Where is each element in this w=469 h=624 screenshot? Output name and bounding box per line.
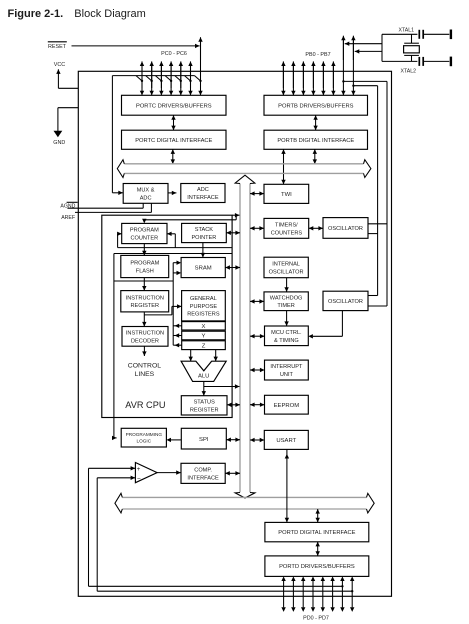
svg-text:INTERFACE: INTERFACE — [187, 475, 219, 481]
svg-text:PB0 - PB7: PB0 - PB7 — [305, 52, 330, 58]
svg-text:PURPOSE: PURPOSE — [190, 304, 218, 310]
svg-text:TWI: TWI — [281, 192, 292, 198]
svg-text:& TIMING: & TIMING — [274, 338, 299, 344]
svg-text:PORTC DRIVERS/BUFFERS: PORTC DRIVERS/BUFFERS — [136, 103, 212, 109]
svg-text:ADC: ADC — [140, 195, 152, 201]
svg-text:Z: Z — [202, 343, 206, 349]
svg-text:OSCILLATOR: OSCILLATOR — [269, 269, 304, 275]
svg-text:OSCILLATOR: OSCILLATOR — [328, 226, 363, 232]
svg-text:REGISTER: REGISTER — [190, 407, 219, 413]
svg-text:PROGRAMMING: PROGRAMMING — [126, 432, 163, 437]
svg-text:+: + — [137, 466, 141, 473]
svg-text:Block Diagram: Block Diagram — [74, 8, 146, 20]
svg-text:PROGRAM: PROGRAM — [130, 228, 159, 234]
svg-text:PORTD DRIVERS/BUFFERS: PORTD DRIVERS/BUFFERS — [279, 564, 355, 570]
svg-text:CONTROL: CONTROL — [128, 362, 161, 369]
svg-text:PD0 - PD7: PD0 - PD7 — [303, 615, 329, 621]
svg-text:UNIT: UNIT — [280, 372, 294, 378]
svg-text:SPI: SPI — [199, 437, 209, 443]
svg-text:INTERNAL: INTERNAL — [272, 262, 300, 268]
svg-text:REGISTERS: REGISTERS — [187, 312, 220, 318]
svg-text:EEPROM: EEPROM — [274, 403, 300, 409]
svg-text:VCC: VCC — [54, 62, 65, 68]
svg-text:LINES: LINES — [135, 371, 155, 378]
svg-text:INSTRUCTION: INSTRUCTION — [126, 330, 164, 336]
svg-text:MUX &: MUX & — [137, 187, 155, 193]
svg-text:COUNTERS: COUNTERS — [271, 230, 303, 236]
svg-text:COUNTER: COUNTER — [130, 236, 158, 242]
svg-text:COMP.: COMP. — [194, 467, 212, 473]
svg-text:INTERFACE: INTERFACE — [187, 195, 219, 201]
svg-text:PORTD DIGITAL INTERFACE: PORTD DIGITAL INTERFACE — [278, 530, 355, 536]
svg-text:STATUS: STATUS — [194, 399, 216, 405]
svg-text:WATCHDOG: WATCHDOG — [270, 295, 303, 301]
svg-text:USART: USART — [276, 438, 296, 444]
svg-text:LOGIC: LOGIC — [137, 439, 152, 444]
svg-text:STACK: STACK — [195, 227, 214, 233]
svg-text:PORTC DIGITAL INTERFACE: PORTC DIGITAL INTERFACE — [135, 138, 212, 144]
svg-text:MCU CTRL.: MCU CTRL. — [271, 330, 302, 336]
svg-text:AREF: AREF — [61, 215, 75, 221]
svg-text:OSCILLATOR: OSCILLATOR — [328, 299, 363, 305]
svg-text:GND: GND — [53, 140, 65, 146]
svg-text:Y: Y — [202, 334, 206, 340]
svg-text:FLASH: FLASH — [136, 269, 154, 275]
svg-text:PROGRAM: PROGRAM — [130, 261, 159, 267]
svg-text:PORTB DIGITAL INTERFACE: PORTB DIGITAL INTERFACE — [277, 138, 354, 144]
svg-text:TIMER: TIMER — [277, 303, 294, 309]
svg-text:INSTRUCTION: INSTRUCTION — [126, 295, 164, 301]
svg-text:AVR CPU: AVR CPU — [125, 400, 165, 410]
svg-text:REGISTER: REGISTER — [130, 303, 159, 309]
svg-text:XTAL1: XTAL1 — [399, 28, 415, 34]
svg-text:ALU: ALU — [198, 374, 209, 380]
svg-text:SRAM: SRAM — [195, 266, 212, 272]
svg-text:RESET: RESET — [48, 44, 67, 50]
svg-text:INTERRUPT: INTERRUPT — [270, 364, 303, 370]
svg-text:Figure 2-1.: Figure 2-1. — [8, 8, 64, 20]
svg-text:PORTB DRIVERS/BUFFERS: PORTB DRIVERS/BUFFERS — [278, 103, 353, 109]
svg-text:PC0 - PC6: PC0 - PC6 — [161, 51, 187, 57]
svg-text:XTAL2: XTAL2 — [401, 68, 417, 74]
svg-text:X: X — [202, 324, 206, 330]
svg-text:POINTER: POINTER — [191, 235, 216, 241]
svg-text:TIMERS/: TIMERS/ — [275, 222, 298, 228]
svg-text:DECODER: DECODER — [131, 338, 159, 344]
svg-text:GENERAL: GENERAL — [190, 296, 217, 302]
svg-text:−: − — [137, 476, 141, 483]
svg-text:ADC: ADC — [197, 187, 209, 193]
